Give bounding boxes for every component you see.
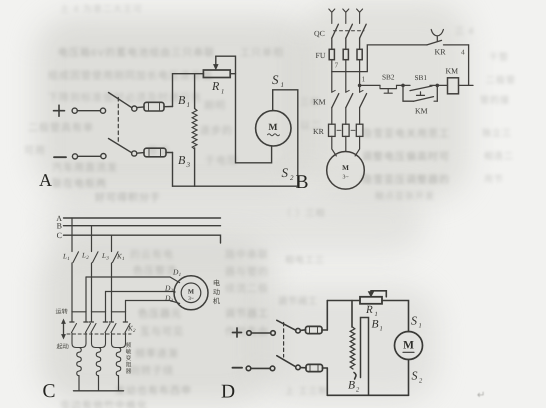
rotor lead D1 — [86, 277, 180, 312]
motor M (DC motor, armature) — [256, 111, 291, 146]
node junction SB2/KM branch — [401, 84, 405, 88]
rheostat wiper arrow — [214, 56, 236, 73]
svg-text:1: 1 — [375, 311, 378, 318]
svg-text:S: S — [272, 72, 279, 87]
switch blade lower — [277, 356, 301, 370]
svg-text:4: 4 — [461, 48, 465, 57]
svg-text:KR: KR — [313, 127, 325, 136]
QC linkage dashes — [334, 30, 365, 32]
main contacts KM (3x) — [332, 60, 367, 108]
rheostat winding 3 — [112, 333, 126, 391]
svg-text:L: L — [101, 252, 106, 260]
stop button SB2 (NC) — [380, 85, 403, 93]
svg-text:机: 机 — [213, 297, 221, 306]
label R1 — [365, 304, 378, 318]
svg-text:QC: QC — [314, 29, 325, 38]
winding frame bracket — [361, 318, 369, 396]
svg-text:L: L — [81, 252, 86, 260]
label K2 — [127, 325, 136, 335]
label L3 — [101, 252, 109, 262]
label D2 — [164, 284, 174, 295]
svg-text:阻: 阻 — [126, 362, 132, 369]
label L1 — [62, 253, 70, 263]
fuse FU-top — [137, 102, 173, 111]
label K1 — [116, 253, 125, 263]
label S2 — [282, 165, 295, 182]
svg-text:3: 3 — [186, 161, 191, 169]
label qidong (start) — [57, 343, 69, 351]
label KR (contact) — [435, 48, 447, 57]
svg-text:7: 7 — [335, 61, 339, 70]
fuse FU-bottom — [137, 148, 173, 157]
svg-text:M: M — [188, 289, 194, 296]
svg-text:变: 变 — [126, 355, 132, 362]
rotor lead D3 — [126, 301, 180, 312]
svg-text:M: M — [269, 123, 278, 133]
rheostat R (box) — [360, 297, 382, 304]
label KR (heaters) — [313, 127, 325, 136]
label B2 — [348, 380, 360, 394]
svg-text:3: 3 — [106, 256, 109, 262]
svg-text:B: B — [348, 380, 355, 392]
wire left riser — [326, 301, 328, 396]
svg-text:S: S — [282, 165, 289, 180]
terminal circles + wire (negative input) — [72, 154, 106, 159]
svg-text:2: 2 — [419, 378, 423, 385]
svg-text:1: 1 — [362, 75, 366, 84]
svg-text:1: 1 — [281, 81, 285, 89]
label 7 (wire number) — [335, 61, 339, 70]
field winding B1-B2 (series coil) — [350, 301, 356, 380]
linkage dashed bar — [67, 333, 131, 335]
svg-text:KM: KM — [313, 98, 326, 107]
wire rheostat to motor bottom — [236, 74, 272, 163]
label B (answer choice) — [296, 172, 309, 193]
label SB2 — [382, 73, 395, 82]
svg-text:频: 频 — [126, 342, 132, 349]
label dianldongji (motor, vertical) — [213, 279, 221, 306]
svg-text:2: 2 — [356, 387, 360, 394]
rheostat wiper arrow — [368, 291, 386, 297]
changeover bridge 1 — [70, 312, 88, 322]
wire motor bottom riser — [408, 360, 410, 396]
wire bottom rail — [173, 185, 298, 187]
actuator arrow (start/run) — [61, 319, 66, 340]
svg-text:S: S — [411, 314, 417, 328]
contactor coil KM — [448, 78, 474, 94]
contact L2 blade — [92, 252, 99, 312]
svg-text:B: B — [57, 222, 62, 231]
switch blade S-bottom (knife switch lower pole) — [109, 139, 137, 157]
moving blades K2 (6x) — [72, 324, 131, 333]
svg-text:B: B — [372, 319, 379, 331]
svg-text:A: A — [39, 170, 52, 190]
bus line A — [56, 214, 220, 223]
wire control right riser — [468, 45, 470, 86]
svg-text:2: 2 — [290, 174, 294, 182]
svg-text:电: 电 — [213, 279, 220, 288]
supply arrows L1 L2 L3 — [329, 9, 363, 24]
svg-text:3~: 3~ — [188, 296, 194, 302]
label L2 — [81, 252, 89, 262]
svg-text:KM: KM — [446, 67, 459, 76]
bus line C — [57, 231, 221, 243]
node 1 (junction phase3/control) — [358, 75, 366, 88]
label A (answer choice) — [39, 170, 52, 190]
svg-text:B: B — [178, 153, 186, 167]
wire control row start — [360, 84, 380, 86]
label D3 — [164, 294, 174, 305]
label C (answer choice) — [43, 381, 56, 402]
node + (positive terminal) — [233, 328, 242, 337]
terminal circles + wire (positive input) — [247, 331, 276, 336]
svg-text:SB1: SB1 — [415, 73, 428, 82]
svg-text:1: 1 — [221, 89, 224, 96]
label QC — [314, 29, 325, 38]
svg-text:B: B — [296, 172, 309, 193]
tap wire from B — [91, 226, 93, 252]
svg-text:L: L — [62, 253, 67, 261]
motor M (DC, with bar) — [395, 332, 423, 360]
label yunzhuan (run) — [56, 308, 68, 316]
rheostat winding 2 — [92, 333, 106, 391]
wire control tap from phase 1 — [332, 45, 427, 72]
thermal relay heaters KR (3x) — [329, 108, 363, 137]
label S1 — [272, 72, 284, 89]
fuse upper — [300, 326, 327, 333]
node + (positive supply terminal) — [54, 105, 65, 116]
switch QC blades (3-pole knife switch) — [332, 24, 366, 38]
svg-text:器: 器 — [126, 368, 132, 375]
svg-text:1: 1 — [179, 272, 182, 278]
svg-text:KM: KM — [415, 107, 428, 116]
svg-text:FU: FU — [316, 51, 326, 60]
svg-text:R: R — [211, 79, 220, 93]
svg-text:KR: KR — [435, 48, 447, 57]
svg-text:1: 1 — [122, 256, 125, 262]
wires to motor — [332, 136, 360, 156]
label SB1 — [415, 73, 428, 82]
dashed switch linkage — [117, 98, 119, 143]
svg-text:M: M — [403, 340, 414, 352]
node - (negative terminal) — [233, 367, 243, 369]
svg-text:敏: 敏 — [126, 349, 132, 356]
switch blade upper — [277, 320, 301, 333]
svg-text:M: M — [342, 164, 349, 172]
page tone washes — [35, 15, 315, 195]
terminal circles + wire (positive input) — [72, 108, 106, 113]
svg-text:C: C — [57, 231, 62, 240]
start button SB1 (NO) — [403, 85, 437, 95]
svg-text:S: S — [412, 369, 418, 383]
label B3 — [178, 153, 191, 169]
label S2 — [412, 369, 424, 385]
wire left riser — [172, 74, 174, 187]
svg-text:1: 1 — [67, 256, 70, 262]
bus line B — [57, 222, 221, 231]
svg-text:起动: 起动 — [57, 343, 69, 351]
rheostat winding 1 (frequency-sensitive) — [72, 333, 86, 391]
svg-text:SB2: SB2 — [382, 73, 395, 82]
label KM (main contacts) — [313, 98, 326, 107]
svg-text:D: D — [221, 382, 235, 403]
svg-text:2: 2 — [86, 255, 89, 261]
svg-text:1: 1 — [187, 101, 191, 109]
changeover bridge 2 — [89, 312, 107, 322]
label KM (coil) — [446, 67, 459, 76]
tap wire from C — [111, 235, 113, 251]
motor M 3~ (induction motor) — [327, 152, 365, 190]
svg-text:1: 1 — [380, 326, 383, 333]
label KM (aux contact) — [415, 107, 428, 116]
contact L3 blade — [112, 252, 119, 312]
label D (answer choice) — [221, 382, 235, 403]
label R1 — [211, 79, 224, 96]
contact L1 blade — [72, 252, 79, 312]
svg-text:R: R — [365, 304, 373, 316]
label 4 (wire number) — [461, 48, 465, 57]
label B1 — [372, 319, 383, 333]
dashed switch linkage — [283, 323, 285, 358]
wire bottom rail — [327, 394, 408, 396]
label B1 — [178, 93, 190, 109]
auxiliary contact KM (self-holding, NO) — [403, 85, 437, 101]
node - (negative supply terminal) — [54, 156, 66, 158]
svg-text:3~: 3~ — [342, 175, 348, 181]
switch blade S-top (knife switch upper pole) — [109, 93, 137, 112]
wire motor top to S1 bracket — [273, 90, 298, 186]
wire star bus — [74, 390, 124, 392]
svg-text:1: 1 — [419, 323, 422, 330]
label pinminbianzuqi (freq-sensitive rheostat, vertical) — [126, 342, 132, 375]
label D1 — [172, 268, 181, 279]
wire top feed — [173, 73, 204, 75]
svg-text:C: C — [43, 381, 56, 402]
label FU — [316, 51, 326, 60]
fuses FU (3x) — [329, 38, 362, 59]
svg-text:2: 2 — [133, 328, 136, 334]
label S1 — [411, 314, 422, 330]
terminal circles + wire (negative input) — [246, 366, 275, 371]
svg-text:运转: 运转 — [56, 308, 68, 316]
ghost text background — [0, 0, 546, 1]
wire to coil — [437, 84, 447, 86]
thermal relay contact KR (NC) — [427, 30, 469, 45]
node junction SB1/KM — [436, 84, 440, 88]
rotor lead D2 — [106, 292, 175, 312]
changeover bridge 3 — [109, 312, 127, 322]
wire top to motor — [382, 301, 409, 332]
tap wire from A — [71, 218, 73, 252]
svg-text:B: B — [178, 93, 186, 107]
fuse lower — [300, 364, 327, 371]
rheostat R (starting resistor box) — [203, 70, 230, 78]
wire top feed — [327, 300, 360, 302]
motor M 3~ wound rotor (double circle) — [174, 276, 208, 310]
svg-text:动: 动 — [213, 289, 220, 297]
field winding B1-B3 (shunt coil) — [192, 74, 197, 187]
